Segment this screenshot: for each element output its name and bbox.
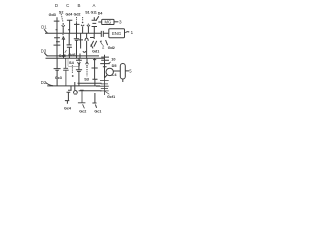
svg-text:Gc4: Gc4 (64, 107, 72, 111)
svg-text:ENG: ENG (112, 31, 122, 36)
svg-text:MG: MG (105, 20, 112, 25)
svg-text:3: 3 (119, 20, 122, 25)
svg-text:S2: S2 (59, 11, 64, 15)
svg-text:Gc2: Gc2 (79, 110, 86, 114)
svg-text:D: D (55, 3, 58, 8)
svg-text:Gd5: Gd5 (59, 54, 66, 58)
svg-text:Gd4: Gd4 (66, 12, 73, 16)
svg-text:B: B (78, 3, 81, 8)
svg-text:Gd1: Gd1 (92, 49, 99, 53)
svg-text:10: 10 (111, 58, 115, 62)
svg-text:S1: S1 (85, 10, 90, 14)
svg-text:D1: D1 (41, 25, 47, 30)
svg-text:Gc1: Gc1 (94, 109, 101, 113)
svg-text:S4: S4 (69, 60, 75, 65)
svg-text:Gd6: Gd6 (68, 53, 75, 57)
svg-text:Gcf1: Gcf1 (107, 95, 115, 99)
svg-text:D2: D2 (41, 80, 47, 85)
svg-text:Gd3: Gd3 (49, 13, 56, 17)
svg-text:D5: D5 (112, 64, 117, 68)
svg-text:S3: S3 (84, 77, 90, 82)
svg-text:Gd2: Gd2 (108, 46, 115, 50)
svg-text:D3: D3 (41, 48, 47, 53)
svg-text:A: A (93, 3, 96, 8)
svg-text:Gd2: Gd2 (74, 12, 81, 16)
svg-text:D4: D4 (98, 11, 103, 15)
svg-text:C: C (66, 3, 69, 8)
svg-text:G11: G11 (91, 11, 97, 15)
svg-text:Gc3: Gc3 (55, 76, 62, 80)
